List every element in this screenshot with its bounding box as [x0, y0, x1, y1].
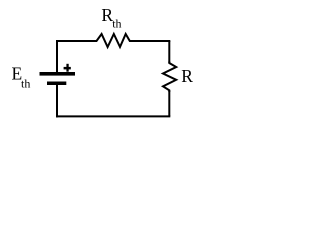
wire: top horizontal, right segment from R_th to top-right corner: [130, 40, 171, 42]
svg-text:R: R: [181, 66, 193, 86]
battery E_th: negative plate (short bottom plate): [47, 82, 66, 86]
wire: right vertical, from top-right corner down to resistor R: [168, 41, 170, 63]
svg-text:th: th: [21, 76, 30, 90]
wire: top horizontal, left segment from top-left corner to R_th: [56, 40, 97, 42]
svg-text:th: th: [112, 16, 121, 30]
resistor R (zigzag, right): [163, 62, 176, 93]
resistor R_th (zigzag, top): [95, 34, 132, 47]
value label E_th (voltage source): [12, 64, 31, 91]
wire: left vertical, from battery positive plate up to top-left corner: [56, 41, 58, 72]
battery E_th: positive plate (long top plate): [40, 72, 76, 76]
wire: bottom horizontal, from bottom-right corner to bottom-left corner: [56, 115, 170, 117]
battery polarity + sign: [64, 64, 71, 72]
value label R_th (top resistor): [101, 5, 121, 30]
wire: right vertical, from resistor R down to bottom-right corner: [168, 90, 170, 116]
wire: left vertical, from bottom-left corner up to battery negative plate: [56, 85, 58, 118]
